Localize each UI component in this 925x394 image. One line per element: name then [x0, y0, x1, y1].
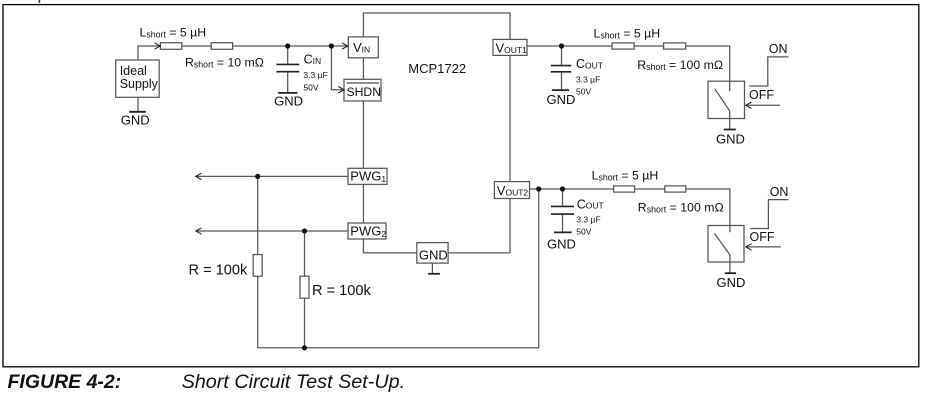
svg-text:OFF: OFF — [750, 230, 775, 244]
svg-text:Short Circuit Test Set-Up.: Short Circuit Test Set-Up. — [182, 371, 406, 393]
svg-text:SHDN: SHDN — [347, 85, 382, 99]
capacitor COUT2 stubs — [562, 189, 564, 232]
svg-text:GND: GND — [547, 236, 576, 251]
wire: PWG2 left line to arrow — [196, 230, 348, 232]
svg-text:3.3 µF: 3.3 µF — [576, 214, 600, 224]
wire: PWG1 left line to arrow — [196, 175, 348, 177]
svg-text:GND: GND — [717, 275, 746, 290]
ground bar: IC GND pin — [428, 273, 440, 275]
wire: IC outline top (VIN up, across, down to VOUT1) — [363, 13, 510, 39]
wire: OFF arrow line switch 1 — [746, 104, 780, 106]
svg-text:50V: 50V — [576, 227, 591, 237]
svg-text:GND: GND — [419, 248, 448, 263]
wire: ON control L-shape switch 1 — [749, 57, 788, 86]
switch SW2 box — [708, 226, 744, 263]
junction node: PWG1/R1 — [255, 174, 260, 179]
svg-text:GND: GND — [274, 93, 303, 108]
svg-text:50V: 50V — [576, 87, 591, 97]
ideal supply box — [116, 60, 160, 97]
svg-text:GND: GND — [716, 132, 745, 147]
wire: R2 vertical from PWG2 line to bottom rail — [304, 231, 306, 348]
capacitor CIN plates — [276, 64, 299, 71]
capacitor COUT1 stubs — [561, 46, 563, 90]
resistor R2 box — [300, 276, 309, 298]
ground bar: ideal supply — [129, 111, 146, 113]
junction node: VIN/SHDN branch — [329, 43, 334, 48]
capacitor COUT1 plates — [551, 66, 572, 72]
junction node: VOUT2/bottom rail — [536, 186, 541, 191]
arrowhead: OFF into switch 1 — [746, 102, 752, 108]
arrowhead: PWG2 line left — [196, 228, 202, 234]
arrowhead: OFF into switch 2 — [746, 244, 752, 250]
svg-text:50V: 50V — [303, 83, 318, 93]
resistor Rshort output2 box 2 — [665, 186, 686, 192]
wire: PWG2 down and across to GND pin box — [363, 239, 416, 253]
wire: between output2 inductor boxes — [635, 188, 665, 190]
svg-text:GND: GND — [547, 92, 576, 107]
pin box VOUT1 — [493, 39, 527, 55]
resistor R1 box — [253, 255, 262, 277]
switch SW2 internal contacts — [714, 226, 730, 274]
wire: bottom rail to VOUT2 node — [258, 189, 539, 348]
resistor Rshort input box 2 — [211, 43, 232, 50]
inductor Lshort output1 box 1 — [612, 43, 634, 49]
wire: VOUT2 to output2 node and L boxes — [530, 188, 614, 190]
pin box PWG1 — [348, 168, 387, 184]
switch SW1 internal contacts — [715, 81, 730, 129]
svg-text:3.3 µF: 3.3 µF — [303, 70, 327, 80]
stray glyph fragment (cut-off descender) at top — [39, 0, 41, 3]
wire: SHDN down to PWG1 — [362, 101, 364, 168]
pin box PWG2 — [348, 223, 386, 239]
svg-text:ON: ON — [770, 185, 789, 199]
arrowhead: into VIN — [342, 43, 348, 49]
ground bar: switch SW1 — [724, 129, 736, 131]
resistor Rshort output1 box 2 — [664, 43, 686, 49]
svg-text:R = 100k: R = 100k — [312, 283, 372, 299]
ground bar: COUT1 — [552, 89, 569, 91]
junction node: PWG2/R2 — [302, 228, 307, 233]
ground bar: switch SW2 — [725, 272, 736, 274]
junction node: COUT2 tap — [560, 186, 565, 191]
wire: VIN to SHDN — [362, 58, 364, 80]
wire: between input inductor boxes — [182, 45, 211, 47]
svg-text:3.3 µF: 3.3 µF — [576, 75, 600, 85]
arrowhead: into SHDN — [338, 87, 344, 93]
svg-text:PWG2: PWG2 — [350, 223, 386, 239]
wire: GND pin box across and up to VOUT2 — [448, 199, 510, 253]
arrowhead: PWG1 line left — [196, 173, 202, 179]
svg-text:R = 100k: R = 100k — [189, 262, 249, 278]
junction node: COUT1 tap — [559, 43, 564, 48]
svg-text:Supply: Supply — [120, 77, 159, 91]
svg-text:FIGURE 4-2:: FIGURE 4-2: — [8, 371, 122, 393]
junction node: CIN tap — [285, 43, 290, 48]
wire: R1 vertical from PWG1 line to bottom rail — [257, 176, 259, 347]
svg-text:PWG1: PWG1 — [350, 169, 386, 185]
svg-text:ON: ON — [769, 42, 788, 56]
svg-text:OFF: OFF — [749, 88, 774, 102]
switch SW1 box — [708, 81, 745, 118]
ground bar: CIN — [278, 92, 297, 94]
pin box VOUT2 — [494, 182, 529, 199]
wire: ideal supply top to input rail — [138, 46, 160, 60]
arrowhead: into input inductor — [155, 43, 161, 49]
pin box SHDN — [344, 79, 381, 101]
svg-text:Ideal: Ideal — [120, 64, 147, 78]
wire: input rail from L/R boxes to VIN pin — [233, 45, 348, 47]
wire: VOUT1 down to VOUT2 — [509, 55, 511, 181]
capacitor COUT2 plates — [551, 206, 574, 214]
wire: branch down from input node to SHDN — [331, 46, 343, 90]
wire: between output1 inductor boxes — [634, 45, 664, 47]
svg-text:MCP1722: MCP1722 — [408, 61, 466, 76]
wire: ON control L-shape switch 2 — [750, 200, 788, 229]
wire: output1 to switch 1 — [686, 46, 730, 81]
pin box GND — [417, 243, 448, 264]
pin box VIN — [348, 37, 378, 58]
inductor Lshort output2 box 1 — [614, 186, 635, 192]
capacitor CIN stubs — [287, 46, 289, 93]
wire: OFF arrow line switch 2 — [746, 246, 781, 248]
wire: PWG1 down to PWG2 — [362, 184, 364, 223]
inductor Lshort input box 1 — [160, 43, 181, 50]
svg-text:GND: GND — [121, 113, 150, 128]
junction node: R2/bottom rail — [302, 345, 307, 350]
wire: ideal supply GND stub — [137, 97, 139, 112]
wire: VOUT1 to output1 node and L boxes — [527, 45, 612, 47]
ground bar: COUT2 — [554, 231, 572, 233]
wire: IC GND pin ground stub — [431, 263, 433, 274]
wire: output2 to switch 2 — [686, 189, 730, 226]
